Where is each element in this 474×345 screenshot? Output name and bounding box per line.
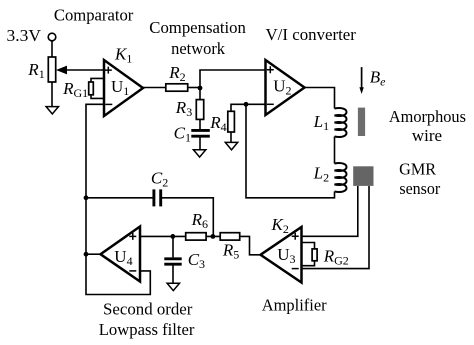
svg-text:network: network	[171, 39, 225, 58]
svg-text:3.3V: 3.3V	[7, 26, 42, 45]
svg-text:V/I converter: V/I converter	[266, 25, 357, 44]
svg-text:Comparator: Comparator	[54, 5, 134, 24]
svg-text:sensor: sensor	[399, 179, 440, 198]
svg-text:Second order: Second order	[103, 299, 193, 318]
svg-text:Amplifier: Amplifier	[262, 296, 327, 315]
svg-text:Amorphous: Amorphous	[389, 107, 466, 126]
svg-text:GMR: GMR	[399, 159, 437, 178]
svg-text:wire: wire	[412, 126, 442, 145]
svg-text:Compensation: Compensation	[149, 18, 246, 37]
svg-text:Lowpass filter: Lowpass filter	[99, 320, 195, 339]
